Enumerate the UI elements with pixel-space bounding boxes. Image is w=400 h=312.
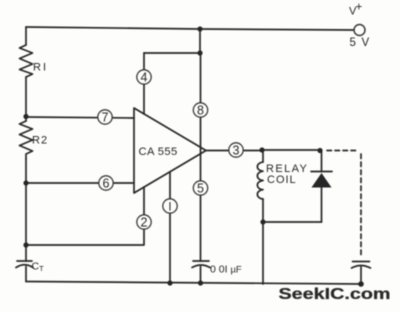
svg-text:R2: R2 [32, 135, 48, 147]
svg-text:CA 555: CA 555 [139, 146, 178, 158]
svg-text:CT: CT [32, 261, 45, 274]
svg-text:4: 4 [141, 71, 148, 85]
svg-text:3: 3 [233, 144, 240, 158]
svg-text:COIL: COIL [267, 174, 297, 186]
svg-text:5 V: 5 V [350, 37, 371, 49]
svg-text:8: 8 [197, 104, 204, 118]
svg-text:+: + [356, 2, 363, 14]
svg-text:0 0I µF: 0 0I µF [210, 264, 242, 276]
svg-text:I: I [168, 202, 171, 214]
svg-text:7: 7 [102, 111, 109, 125]
svg-text:RI: RI [33, 62, 48, 74]
svg-text:5: 5 [197, 182, 204, 196]
svg-text:6: 6 [103, 177, 110, 191]
svg-text:2: 2 [141, 216, 148, 230]
svg-text:SeekIC.com: SeekIC.com [279, 285, 391, 303]
